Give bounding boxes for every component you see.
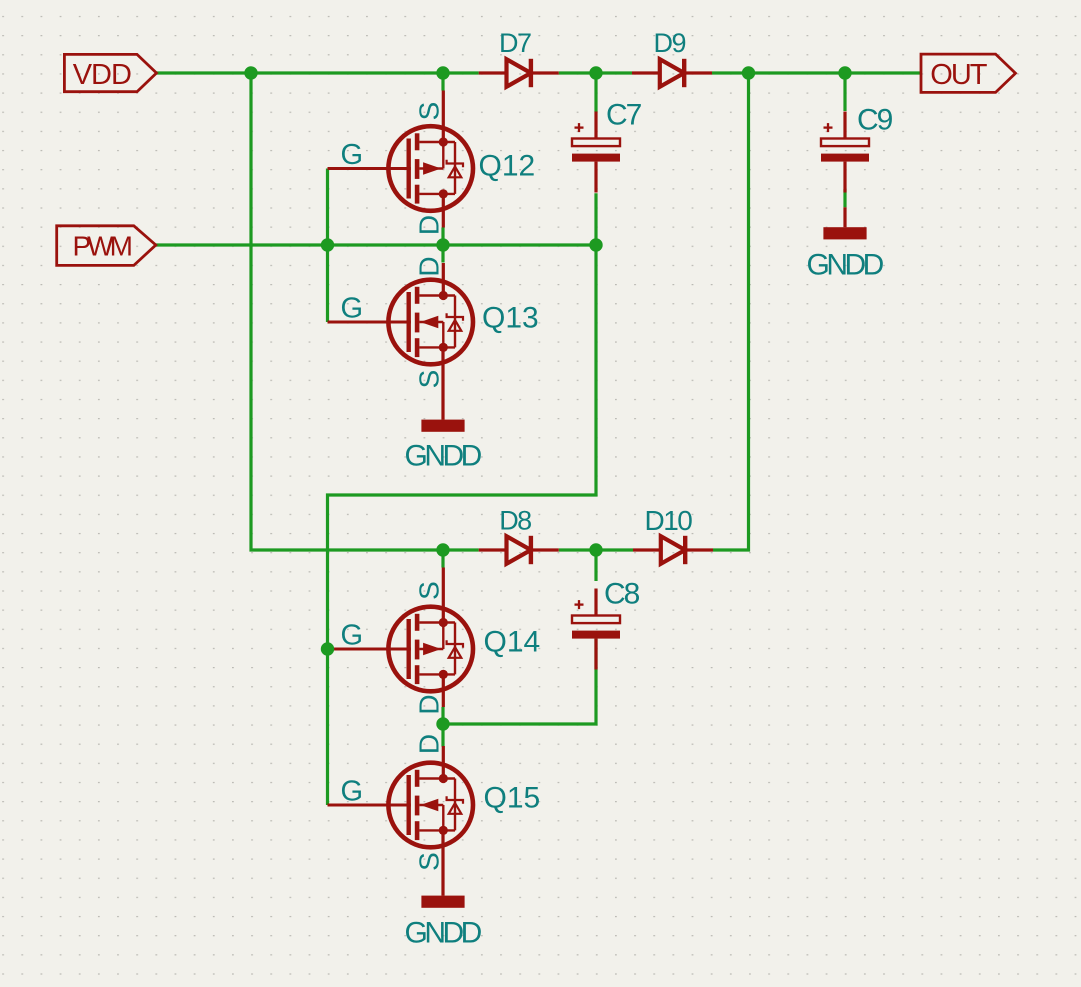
svg-text:G: G [341, 293, 364, 325]
svg-text:GNDD: GNDD [807, 249, 884, 282]
svg-text:G: G [341, 776, 364, 808]
svg-text:GNDD: GNDD [405, 917, 482, 950]
svg-text:S: S [414, 581, 445, 600]
svg-text:C8: C8 [604, 578, 640, 611]
svg-text:D10: D10 [645, 505, 693, 536]
svg-text:Q14: Q14 [484, 626, 541, 659]
svg-text:S: S [414, 102, 445, 121]
svg-text:D: D [414, 256, 445, 276]
svg-text:S: S [414, 852, 445, 871]
svg-text:D: D [414, 734, 445, 754]
svg-text:C9: C9 [857, 104, 893, 137]
svg-text:C7: C7 [606, 99, 642, 132]
svg-text:OUT: OUT [930, 59, 988, 91]
svg-text:Q15: Q15 [484, 782, 541, 815]
svg-text:D: D [414, 215, 445, 235]
svg-text:S: S [414, 370, 445, 389]
svg-text:D7: D7 [499, 28, 531, 58]
svg-text:Q13: Q13 [482, 302, 539, 335]
svg-text:D9: D9 [654, 28, 686, 58]
svg-text:PWM: PWM [73, 231, 132, 262]
svg-text:D8: D8 [499, 506, 531, 536]
svg-text:Q12: Q12 [479, 150, 536, 183]
svg-text:VDD: VDD [73, 59, 131, 91]
svg-text:D: D [414, 694, 445, 714]
svg-text:G: G [341, 620, 364, 652]
svg-text:G: G [341, 139, 364, 171]
svg-text:GNDD: GNDD [405, 440, 482, 473]
